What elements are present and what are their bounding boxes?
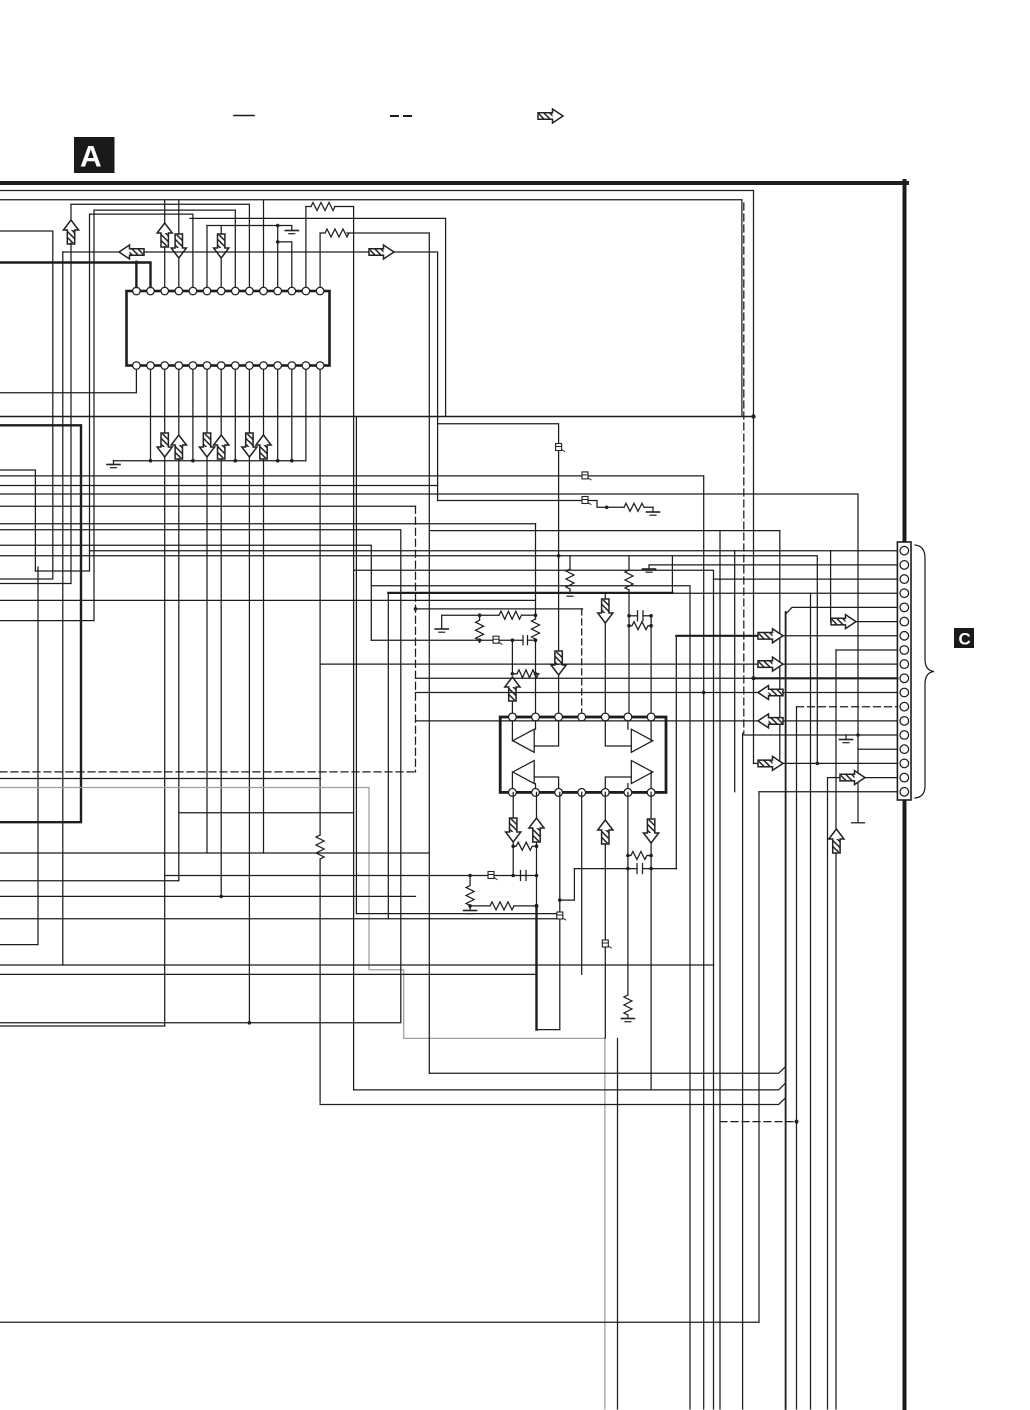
opamp pin2 rail with resistor xyxy=(535,524,537,619)
wire h545 xyxy=(0,545,371,640)
wire left v52 xyxy=(0,231,53,579)
opamp left cluster wire h615 with resistor xyxy=(442,614,499,616)
pin9 wire with arrow xyxy=(320,663,758,665)
wire h965 xyxy=(0,964,714,966)
IC1 bottom pins xyxy=(133,362,324,370)
wire h918 xyxy=(0,918,560,920)
bus entry h1103 xyxy=(320,1098,785,1105)
pin12 dashed wire xyxy=(797,706,898,708)
wire h506 to dashed box corner xyxy=(0,505,416,507)
wire h608 dashed drop xyxy=(416,608,583,610)
pin13 bottom wire xyxy=(305,370,307,461)
wire h529 loop xyxy=(0,530,401,1023)
wire left arrow line xyxy=(63,251,119,253)
pin9 bottom arrow down xyxy=(248,370,250,434)
border top thick xyxy=(0,181,907,185)
pin3 wire xyxy=(714,578,898,580)
thick bus h593 xyxy=(388,592,672,594)
pin7 thick wire with arrow xyxy=(676,635,758,637)
wire h476 xyxy=(0,476,704,1409)
resistor column x470 xyxy=(466,876,474,908)
opamp pin5 bottom arrow up xyxy=(604,792,606,820)
wire h204 xyxy=(71,204,249,287)
pin12 bottom wire xyxy=(291,370,293,461)
wire h500 with resistor to ground xyxy=(438,501,624,508)
op-amp U2a triangle xyxy=(513,729,534,752)
wire h868 with cap xyxy=(574,868,637,870)
wire h600 xyxy=(0,599,536,601)
pin4 bottom arrow up xyxy=(178,370,180,436)
dashed boundary right of block xyxy=(743,203,745,733)
wire h812 xyxy=(353,207,355,1090)
wire h242 pin12 xyxy=(278,242,292,287)
stub terminator near pin14 xyxy=(857,749,859,822)
top arrow xyxy=(538,109,563,123)
wire h523 xyxy=(0,523,536,525)
wire h210 xyxy=(94,210,235,287)
svg-text:A: A xyxy=(80,141,102,174)
U2 top pins xyxy=(509,713,655,721)
opamp pin6 bottom wire + resistor gnd xyxy=(627,792,629,995)
op-amp U2b triangle xyxy=(631,729,652,752)
opamp IC U2 body xyxy=(500,717,666,792)
pin1 wire drop xyxy=(734,551,736,792)
dashed wire h1121 xyxy=(720,1121,797,1123)
label A box xyxy=(74,137,115,173)
pin5 wire to bus xyxy=(786,607,898,614)
arrow down opamp pin5 xyxy=(604,594,606,600)
brace right of CN1 xyxy=(915,545,934,798)
pin18 wire xyxy=(759,791,897,793)
pin14 wire with ground xyxy=(743,734,898,736)
bus vertical x785 xyxy=(785,612,787,1409)
vertical x676 xyxy=(675,636,677,869)
wire h570 xyxy=(354,570,714,1409)
wire left v89 xyxy=(35,214,90,571)
pin7 bottom arrow up xyxy=(220,370,222,436)
wire h640 with cap xyxy=(371,639,523,641)
opamp pin3 bottom wire xyxy=(559,792,561,1029)
ground bus wire below IC xyxy=(114,460,306,462)
pin6 bottom arrow down xyxy=(206,370,208,434)
dashed box bottom edge xyxy=(0,771,416,773)
vertical x617 xyxy=(617,1038,619,1409)
wire left v35 xyxy=(0,470,35,571)
op-amp U2d triangle xyxy=(631,761,652,784)
wire h871 cluster xyxy=(165,875,537,877)
bus entry h1074 xyxy=(429,1067,785,1074)
pin1 bottom wire xyxy=(0,370,136,393)
arrow down pin7 xyxy=(214,234,229,258)
pin14 bottom wire long with resistor xyxy=(319,370,321,836)
pin5 bottom wire xyxy=(192,370,194,461)
pin6 wire with arrow xyxy=(830,551,832,622)
pin10 bottom arrow up xyxy=(263,370,265,436)
wire h550 pin1 long xyxy=(90,550,898,552)
wire h974 xyxy=(0,973,537,975)
pin13 wire with left arrow xyxy=(416,720,759,722)
pin3 bottom arrow down xyxy=(164,370,166,434)
pin2 bottom wire xyxy=(150,370,152,461)
wire left v94 xyxy=(0,210,94,620)
opamp pin7 bottom arrow down xyxy=(650,792,652,819)
pin8 wire xyxy=(836,649,897,651)
thick U wire left xyxy=(0,425,81,822)
top dash mark xyxy=(234,115,254,117)
wire h225 + ground xyxy=(207,226,292,231)
border right thick lower xyxy=(903,799,907,1409)
resistor rail x629 xyxy=(628,556,630,570)
CN1 pins xyxy=(900,546,909,796)
wire h896 xyxy=(0,895,416,897)
opamp pin1 bottom arrow + resistor xyxy=(512,792,514,818)
inner border line xyxy=(0,191,754,764)
pin15 wire xyxy=(858,748,897,750)
IC IC1 body xyxy=(127,291,330,366)
resistor h905 xyxy=(470,905,490,907)
wire h854 xyxy=(428,233,430,1073)
label C box xyxy=(954,628,974,648)
wire h494 xyxy=(0,494,858,749)
gray routed wire xyxy=(0,788,605,1410)
block bottom edge xyxy=(0,416,754,418)
U2 bottom pins xyxy=(509,789,655,797)
pin10 top wire xyxy=(263,200,265,287)
wire left v71 xyxy=(0,243,71,584)
pin10 thick wire xyxy=(754,677,898,679)
signal arrow up on pin8 drop xyxy=(829,829,844,853)
pin11 wire with left arrow xyxy=(416,692,759,694)
wire h218 xyxy=(190,218,446,416)
signal arrow up left xyxy=(63,220,78,244)
connector CN1 body xyxy=(897,542,911,800)
IC1 top pins xyxy=(133,287,324,295)
pin4 wire from thick bus xyxy=(672,592,897,594)
pin11 bottom wire xyxy=(277,370,279,461)
wire left v38 xyxy=(0,567,38,945)
wire h423 to mini component column / opamp pin3 rail xyxy=(438,424,559,651)
pin16 wire with arrow xyxy=(754,762,759,764)
wire h214 xyxy=(90,214,193,287)
junction blob xyxy=(751,414,755,418)
wire h485 xyxy=(0,485,438,487)
arrow up pin3 xyxy=(157,223,172,247)
wire h779 xyxy=(0,778,320,780)
pin17 wire with arrow xyxy=(828,777,841,779)
svg-text:C: C xyxy=(959,630,971,649)
resistor vertical left cluster xyxy=(476,615,484,642)
cap h615 xyxy=(629,615,638,617)
top double dash xyxy=(391,115,398,117)
resistor h625 xyxy=(629,622,651,630)
bus entry h1089 xyxy=(650,869,652,1090)
resistor h855 xyxy=(628,852,651,860)
arrow down pin4 xyxy=(171,234,186,258)
thick supply wire to pins 1-2 xyxy=(0,263,151,288)
resistor h672 xyxy=(511,640,513,674)
wire h559 xyxy=(0,556,817,764)
cap on h875 xyxy=(520,871,522,881)
resistor R2 top xyxy=(320,232,325,234)
op-amp U2c triangle xyxy=(513,761,534,784)
resistor to gnd x570 xyxy=(569,556,571,569)
block frame right vertical lower xyxy=(742,733,744,1409)
wire h585 xyxy=(371,586,690,1409)
thick drop from resistor node xyxy=(535,906,537,1030)
resistor R1 top xyxy=(306,206,311,208)
opamp pin2 bottom arrow up xyxy=(536,792,538,818)
opamp pin4 bottom wire xyxy=(581,792,583,974)
pin8 bottom wire xyxy=(234,370,236,461)
dashed box right edge xyxy=(415,506,417,772)
wire h1322 xyxy=(0,792,759,1323)
wire left v62 xyxy=(62,252,64,965)
arrow up opamp pin1 xyxy=(505,677,520,701)
wire h531 xyxy=(429,531,780,764)
border right thick upper xyxy=(903,181,907,543)
wire h900 xyxy=(560,869,575,901)
pin2 wire + ground xyxy=(650,564,897,566)
block frame line xyxy=(0,200,742,417)
